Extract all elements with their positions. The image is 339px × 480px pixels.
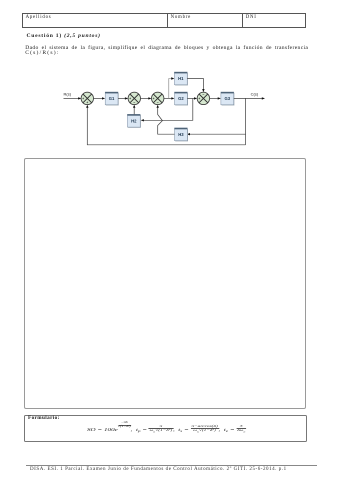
- wire sum2 to sum3: [141, 97, 150, 99]
- wire sum1 to G1: [94, 97, 104, 99]
- wire H1 to sum4 top: [187, 79, 203, 91]
- block H1: [174, 72, 188, 86]
- summing junction S4: [197, 92, 209, 104]
- wire takeoff to H3: [188, 133, 245, 135]
- summing junction S2: [128, 92, 140, 104]
- svg-text:G3: G3: [225, 96, 231, 101]
- wire G1 to sum2: [118, 97, 126, 99]
- paragraph: [25, 46, 308, 57]
- summing junction S3: [152, 92, 164, 104]
- wire G3 to output with takeoff node: [234, 97, 264, 99]
- wire sum3 to G2 with branch node: [164, 97, 173, 99]
- wire branch up to H1: [169, 79, 173, 99]
- block G2: [175, 92, 189, 106]
- block G3: [221, 92, 235, 106]
- block H3: [175, 128, 189, 141]
- wire input to sum1: [64, 97, 79, 99]
- svg-text:G2: G2: [178, 96, 184, 101]
- block G1: [105, 92, 119, 106]
- wire sum4 to G3: [210, 97, 220, 99]
- heading: [27, 33, 101, 39]
- summing junction S1: [81, 92, 93, 104]
- svg-text:G1: G1: [109, 96, 115, 101]
- svg-text:C(s): C(s): [251, 92, 259, 97]
- wire H3 to sum3 with crossover jog: [158, 106, 175, 134]
- formulario box: [24, 415, 306, 443]
- block H2: [127, 114, 140, 128]
- wire takeoff down: [245, 98, 247, 144]
- svg-text:R(s): R(s): [64, 92, 72, 97]
- footer: [26, 465, 317, 466]
- svg-text:H1: H1: [178, 76, 184, 81]
- wire H2 up to sum2: [133, 106, 135, 114]
- answer box: [24, 158, 306, 409]
- svg-text:H2: H2: [131, 118, 137, 123]
- header table: [22, 13, 307, 28]
- wire branch down to H2: [142, 99, 193, 121]
- wire G2 to sum4 with branch node: [187, 97, 195, 99]
- svg-text:H3: H3: [178, 132, 184, 137]
- wire outer feedback to sum1: [87, 106, 245, 145]
